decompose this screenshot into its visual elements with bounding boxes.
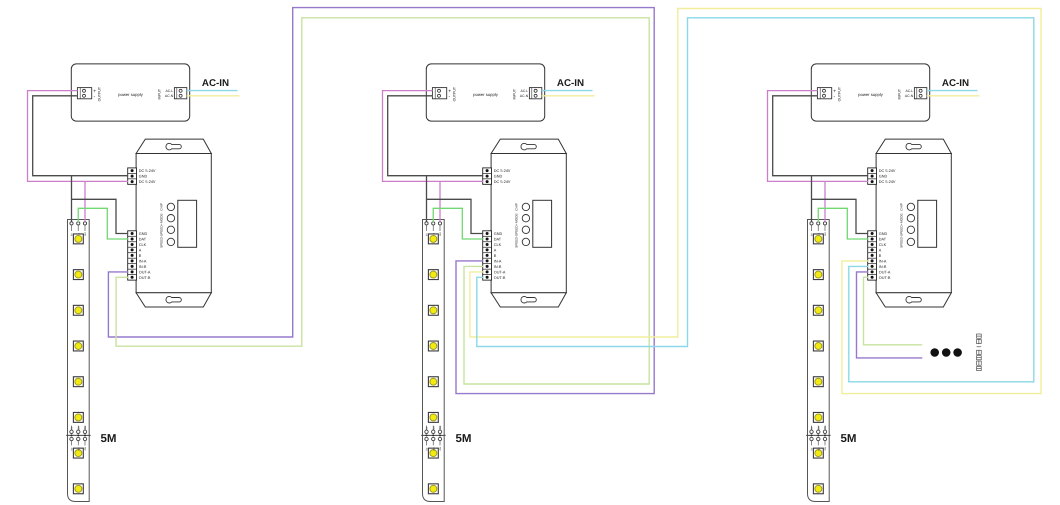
wire purple OUT-A S1 to IN-A S2 (108, 8, 654, 394)
vertical note (connect next controller) (977, 334, 982, 371)
wire yellow OUT-A S2 to IN-A S3 (470, 9, 1041, 394)
section 2 (383, 64, 595, 502)
wire purple OUT-A S3 to next (857, 272, 923, 358)
wire yellow-green OUT-B S1 to IN-B S2 (116, 18, 649, 384)
ellipsis dots (930, 348, 939, 357)
wire yellow-green OUT-B S3 to next (864, 277, 923, 345)
section 1 (28, 64, 240, 502)
section 3 (768, 64, 980, 502)
wire cyan OUT-B S2 to IN-B S3 (477, 18, 1034, 382)
